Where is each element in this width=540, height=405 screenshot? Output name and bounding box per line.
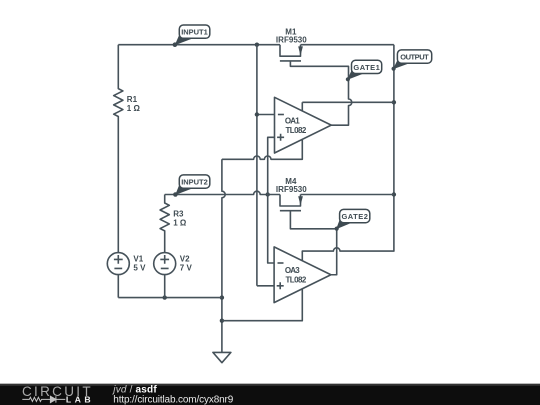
svg-text:1 Ω: 1 Ω: [173, 219, 187, 228]
node OA1 inverting input junction: [255, 112, 259, 116]
svg-text:OA1: OA1: [285, 117, 300, 126]
wire OA1 V- to ground vertical with hops over input verticals: [222, 140, 302, 159]
svg-text:TL082: TL082: [286, 126, 307, 135]
wire ground vertical: [222, 159, 225, 352]
svg-text:7 V: 7 V: [180, 264, 193, 273]
svg-text:R3: R3: [173, 210, 184, 219]
svg-text:OA3: OA3: [285, 266, 300, 275]
node INPUT2 flag: [173, 175, 210, 197]
svg-text:http://circuitlab.com/cyx8nr9: http://circuitlab.com/cyx8nr9: [113, 395, 233, 405]
node INPUT2 junction: [266, 192, 270, 196]
node OUTPUT junction at M4 drain wire: [392, 192, 396, 196]
node V2 return junction: [163, 295, 167, 299]
svg-text:GATE1: GATE1: [353, 63, 380, 72]
op-amp OA3 TL082: [274, 247, 331, 303]
node ground junction at V1/V2 return: [220, 295, 224, 299]
resistor R3: [160, 195, 187, 253]
transistor M4 IRF9530: [276, 177, 307, 211]
svg-text:INPUT1: INPUT1: [181, 28, 208, 37]
transistor M1 IRF9530: [276, 27, 307, 61]
wire INPUT1 top horizontal from R1 top to M1 source: [118, 44, 280, 46]
wire OUTPUT vertical and across to OA3 V+ with hop over GATE2 wire: [302, 45, 394, 261]
svg-text:INPUT2: INPUT2: [181, 178, 208, 187]
svg-text:IRF9530: IRF9530: [276, 35, 307, 44]
node OUTPUT flag: [392, 50, 432, 71]
wire bottom return from V1 and V2 to ground: [118, 297, 222, 299]
node ground junction at OA3 V- wire: [220, 319, 224, 323]
svg-text:OUTPUT: OUTPUT: [400, 53, 429, 62]
voltage source V1: [107, 253, 146, 298]
svg-text:V1: V1: [133, 255, 143, 264]
node GATE2 flag: [335, 209, 370, 230]
wire GATE2 net from M4 gate to OA3 output apex: [290, 211, 336, 275]
node OUTPUT junction at OA1 V+ wire: [392, 100, 396, 104]
svg-text:IRF9530: IRF9530: [276, 185, 307, 194]
wire GATE1 net from M1 gate to OA1 output apex: [290, 61, 351, 125]
voltage source V2: [154, 253, 193, 298]
wire M1 drain to OUTPUT corner: [301, 44, 394, 46]
svg-text:LAB: LAB: [66, 395, 91, 405]
wire OA1 V+ to OUTPUT with hop over GATE1 wire: [302, 102, 394, 111]
op-amp OA1 TL082: [275, 97, 332, 153]
wire M4 drain to OUTPUT vertical: [301, 194, 394, 196]
svg-text:GATE2: GATE2: [341, 212, 368, 221]
svg-text:R1: R1: [127, 95, 138, 104]
wire INPUT2 vertical from OA1 non-inverting input to OA3 inverting input: [268, 137, 275, 263]
wire OA3 V- to ground: [222, 289, 302, 321]
ground: [213, 352, 231, 362]
footer logo schematic glyph (resistor + diode): [22, 396, 65, 402]
resistor R1: [114, 45, 141, 253]
svg-text:TL082: TL082: [286, 276, 307, 285]
node INPUT1 junction on top wire: [255, 43, 259, 47]
footer bar: [0, 384, 540, 405]
svg-text:V2: V2: [180, 255, 190, 264]
svg-text:5 V: 5 V: [133, 264, 146, 273]
svg-text:1 Ω: 1 Ω: [127, 104, 141, 113]
wire INPUT1 vertical to OA1 inverting input and OA3 non-inverting input: [257, 45, 275, 286]
node GATE1 flag: [346, 60, 382, 81]
wire INPUT2/M4 source horizontal with hops over ground and INPUT1 verticals: [165, 191, 280, 194]
node INPUT1 flag: [173, 25, 210, 47]
